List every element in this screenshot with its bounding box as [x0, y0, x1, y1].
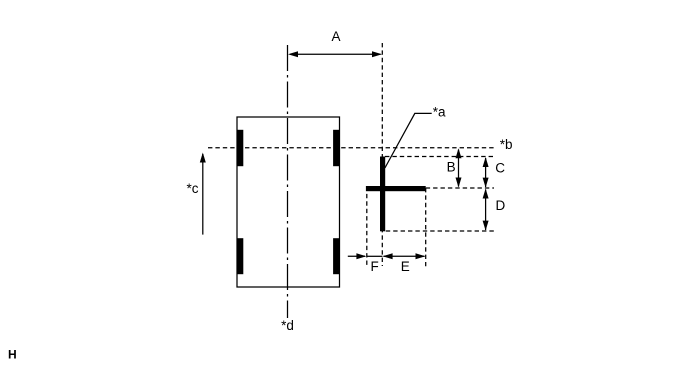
svg-text:*a: *a	[433, 104, 446, 119]
cross target horizontal bar	[366, 186, 426, 191]
dimension E line	[384, 255, 425, 257]
svg-text:D: D	[496, 198, 506, 213]
dimension A right arrowhead	[372, 51, 382, 57]
vehicle centerline (dash-dot)	[287, 45, 289, 318]
target vertical dashed line through cross	[381, 43, 383, 266]
dimension C top arrowhead	[483, 157, 489, 167]
bar-level dashed line right of cross	[426, 187, 494, 189]
vehicle body outline	[237, 117, 340, 287]
cross-top dashed line	[385, 156, 494, 158]
dimension C line	[485, 158, 487, 187]
svg-text:B: B	[447, 159, 456, 174]
svg-text:H: H	[8, 347, 17, 361]
svg-text:F: F	[370, 259, 378, 274]
svg-text:C: C	[495, 160, 505, 175]
dimension F arrowhead (points right)	[356, 253, 366, 259]
dimension E right arrowhead	[416, 253, 426, 259]
front axle dashed line (*b line)	[208, 147, 495, 149]
dimension D line	[485, 190, 487, 231]
dimension B line	[458, 150, 460, 187]
dimension A left arrowhead	[288, 51, 298, 57]
wheel front-left	[237, 130, 243, 166]
dimension D bottom arrowhead	[483, 221, 489, 231]
svg-text:*d: *d	[281, 318, 294, 333]
wheel rear-right	[333, 238, 339, 274]
wheel front-right	[333, 130, 339, 166]
svg-text:A: A	[331, 29, 340, 44]
dimension E left arrowhead	[383, 253, 393, 259]
arrow *c (vehicle forward direction)	[202, 154, 204, 235]
cross target vertical bar	[380, 157, 385, 232]
svg-text:E: E	[401, 259, 410, 274]
dimension D top arrowhead	[483, 189, 489, 199]
dimension B bottom arrowhead	[456, 178, 462, 188]
leader line for *a	[385, 113, 432, 168]
connecting line across F span	[367, 255, 383, 257]
left dashed vertical (box edge)	[366, 187, 368, 267]
dimension B top arrowhead	[456, 148, 462, 158]
right dashed vertical (box edge)	[425, 188, 427, 266]
arrow *c arrowhead (points up)	[200, 153, 206, 163]
svg-text:*b: *b	[500, 137, 513, 152]
dimension C bottom arrowhead	[483, 178, 489, 188]
dimension A line	[290, 53, 381, 55]
cross-bottom dashed line	[386, 230, 494, 232]
svg-text:*c: *c	[187, 181, 199, 196]
dimension F outside arrow line	[348, 255, 365, 257]
wheel rear-left	[237, 238, 243, 274]
